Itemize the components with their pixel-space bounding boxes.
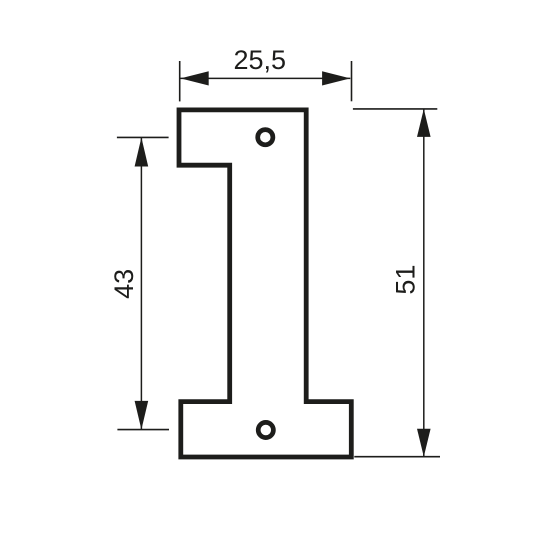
43 bottom tick: [117, 429, 169, 431]
top dim right extension line: [351, 61, 353, 101]
43 top tick: [117, 136, 169, 138]
51 top arrowhead: [417, 109, 431, 137]
left dimension line 43: [140, 138, 142, 430]
svg-text:25,5: 25,5: [234, 45, 287, 75]
svg-text:43: 43: [109, 269, 139, 299]
top dim right arrowhead: [322, 71, 350, 85]
51 top tick: [353, 108, 437, 110]
right dimension line 51: [423, 109, 425, 457]
43 bottom arrowhead: [135, 401, 149, 430]
51 bottom tick: [354, 456, 440, 458]
top dimension line 25,5: [181, 77, 351, 79]
bottom screw hole: [258, 422, 273, 437]
svg-text:51: 51: [391, 265, 421, 295]
43 top arrowhead: [135, 138, 149, 167]
top screw hole: [258, 130, 273, 145]
51 bottom arrowhead: [417, 429, 431, 457]
digit 1 plate outline: [179, 110, 351, 457]
top dim left arrowhead: [181, 71, 209, 85]
top dim left extension line: [179, 61, 181, 101]
